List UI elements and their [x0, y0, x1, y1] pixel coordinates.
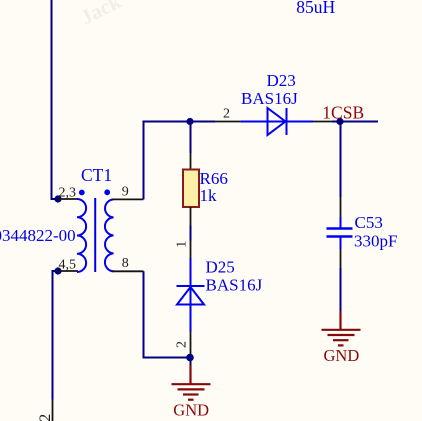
svg-text:0344822-00: 0344822-00	[0, 226, 76, 245]
svg-text:2: 2	[175, 341, 190, 348]
resistor R66 pin 2 line	[190, 153, 192, 170]
wire C53 to GND	[340, 268, 342, 312]
resistor R66 pin 1 line	[190, 207, 192, 226]
svg-text:GND: GND	[173, 401, 209, 420]
svg-text:2: 2	[37, 414, 54, 421]
capacitor C53 pin 2 line	[340, 249, 342, 268]
ground symbol left	[172, 365, 211, 400]
wire stub to GND (left)	[190, 358, 192, 367]
wire bottom-left vertical	[53, 271, 59, 400]
transformer CT1 polarity dot left	[79, 190, 85, 196]
svg-text:9: 9	[122, 185, 129, 200]
wire pin 8 down and right to D25 node	[144, 271, 191, 357]
capacitor C53 pin 1 line	[340, 197, 342, 217]
diode D25 symbol	[177, 258, 205, 332]
svg-text:1: 1	[174, 241, 189, 248]
transformer CT1 pin 2,3 line	[58, 198, 77, 200]
pin 2 line of off-sheet part (bottom left)	[52, 400, 54, 421]
diode D25 pin 2 line	[190, 332, 192, 358]
transformer CT1 pin 9 line	[112, 198, 144, 200]
wire junction down to R66	[190, 122, 192, 154]
top rail: D23 pin 2 line	[215, 121, 241, 123]
diode D23 symbol	[241, 108, 313, 135]
svg-text:CT1: CT1	[81, 165, 112, 185]
wire top-left vertical	[52, 0, 59, 199]
svg-text:BAS16J: BAS16J	[206, 276, 263, 295]
ground symbol right	[322, 311, 361, 345]
svg-text:4,5: 4,5	[59, 258, 77, 273]
svg-text:GND: GND	[324, 346, 360, 365]
diode D23 pin 1 line	[313, 121, 332, 123]
svg-text:2,3: 2,3	[59, 186, 77, 201]
svg-text:330pF: 330pF	[354, 232, 397, 251]
svg-text:1CSB: 1CSB	[322, 103, 364, 123]
svg-text:2: 2	[223, 107, 230, 122]
node junction dot pin 2,3	[54, 195, 61, 202]
wire R66 to D25	[190, 226, 192, 241]
node junction dot top of R66	[186, 118, 193, 125]
transformer CT1 primary winding (left)	[77, 199, 86, 272]
transformer CT1 pin 8 line	[112, 270, 144, 272]
svg-text:1k: 1k	[200, 186, 218, 205]
transformer CT1 pin 4,5 line	[58, 270, 78, 272]
transformer CT1 polarity dot right	[104, 189, 110, 195]
svg-text:8: 8	[122, 256, 129, 271]
wire 1CSB net	[332, 121, 378, 123]
transformer CT1 secondary winding (right)	[105, 199, 114, 271]
svg-text:D23: D23	[267, 71, 296, 90]
wire pin 9 to top rail	[144, 122, 216, 200]
node junction dot D25 anode / GND	[186, 354, 194, 362]
svg-text:85uH: 85uH	[296, 0, 335, 17]
svg-text:D25: D25	[206, 258, 235, 277]
capacitor C53 symbol	[327, 217, 353, 249]
svg-text:C53: C53	[355, 213, 383, 232]
transformer CT1 core	[94, 198, 96, 272]
node junction dot pin 4,5	[54, 267, 61, 274]
wire 1CSB down to C53	[340, 122, 342, 198]
node junction dot 1CSB	[336, 118, 343, 125]
diode D25 pin 1 line	[190, 241, 192, 259]
resistor R66 body	[183, 170, 199, 208]
svg-text:BAS16J: BAS16J	[241, 89, 298, 108]
